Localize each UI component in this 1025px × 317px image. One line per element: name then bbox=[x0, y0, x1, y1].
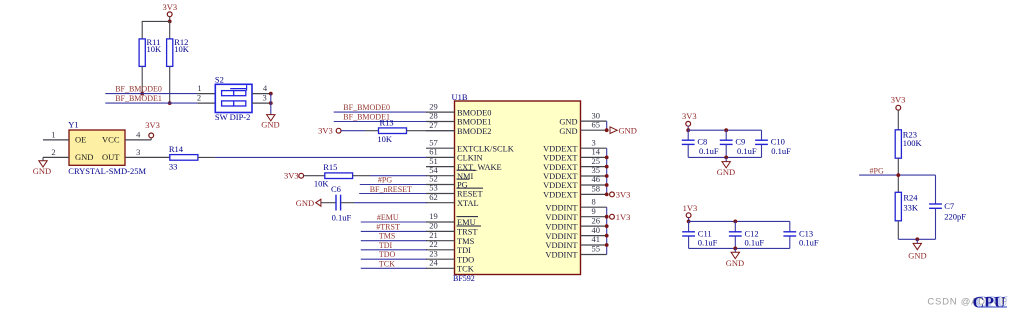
pin 21 TMS bbox=[426, 240, 455, 242]
pin S2-4 bbox=[252, 93, 271, 95]
pin 53 RESET bbox=[426, 193, 455, 195]
ground (S2) bbox=[261, 115, 279, 130]
power 3V3 (VDDEXT) bbox=[610, 190, 631, 200]
pin Y1-2 bbox=[43, 156, 69, 158]
svg-text:3V3: 3V3 bbox=[682, 111, 697, 121]
svg-text:TDI: TDI bbox=[379, 241, 393, 250]
node VDDEXT 35 bbox=[605, 174, 609, 178]
wire to R12 top bbox=[169, 21, 171, 39]
wire CLKIN net bbox=[215, 156, 427, 158]
pin 40 VDDINT bbox=[581, 235, 607, 237]
svg-text:VDDINT: VDDINT bbox=[545, 203, 577, 212]
wire 3V3 to R15 bbox=[304, 175, 325, 177]
pin 22 TDI bbox=[426, 249, 455, 251]
svg-text:TDO: TDO bbox=[457, 255, 474, 264]
svg-text:3: 3 bbox=[136, 147, 140, 157]
wire #PG net bbox=[859, 174, 935, 176]
watermark CSDN bbox=[927, 293, 1008, 311]
pin S2-3 bbox=[252, 102, 271, 104]
resistor R11 bbox=[139, 37, 162, 66]
svg-text:C10: C10 bbox=[771, 137, 785, 147]
node C9 bottom bbox=[724, 156, 728, 160]
capacitor C13 bbox=[783, 221, 818, 248]
pin 28 BMODE1 bbox=[426, 121, 455, 123]
svg-text:10K: 10K bbox=[314, 178, 330, 188]
svg-text:0.1uF: 0.1uF bbox=[799, 238, 819, 248]
node 3V3 junction bbox=[168, 20, 172, 24]
svg-text:GND: GND bbox=[559, 118, 577, 127]
svg-text:GND: GND bbox=[75, 152, 93, 162]
svg-text:0.1uF: 0.1uF bbox=[771, 146, 791, 156]
svg-text:1: 1 bbox=[51, 129, 55, 139]
svg-text:VDDEXT: VDDEXT bbox=[543, 154, 577, 163]
resistor R12 bbox=[167, 37, 190, 66]
wire TDO bbox=[361, 258, 427, 260]
power 3V3 (top) bbox=[162, 2, 177, 17]
svg-text:C9: C9 bbox=[735, 137, 745, 147]
wire R14 lead bbox=[198, 156, 215, 158]
node VDDINT 40 bbox=[605, 234, 609, 238]
wire S2 to ground bbox=[270, 94, 272, 115]
svg-text:3V3: 3V3 bbox=[318, 125, 333, 135]
power 3V3 (R23) bbox=[891, 95, 906, 111]
svg-text:XTAL: XTAL bbox=[457, 199, 479, 208]
pin 51 EXT_WAKE bbox=[426, 166, 455, 168]
pin 8 VDDINT bbox=[581, 206, 607, 208]
wire 1V3 stub bbox=[688, 218, 690, 222]
wire #TRST bbox=[361, 230, 427, 232]
svg-text:TCK: TCK bbox=[457, 265, 474, 274]
svg-text:GND: GND bbox=[619, 125, 637, 135]
wire TDI bbox=[361, 249, 427, 251]
svg-text:0.1uF: 0.1uF bbox=[699, 146, 719, 156]
pin Y1-3 bbox=[125, 156, 170, 158]
node VDDINT 9 bbox=[605, 215, 609, 219]
node S2-3 junction bbox=[269, 101, 273, 105]
node C12 top bbox=[733, 220, 737, 224]
svg-text:C6: C6 bbox=[331, 184, 341, 194]
svg-text:RESET: RESET bbox=[457, 190, 483, 199]
svg-text:GND: GND bbox=[717, 167, 735, 177]
ground (C6) bbox=[296, 198, 321, 208]
svg-text:BF_nRESET: BF_nRESET bbox=[370, 185, 412, 194]
pin 29 BMODE0 bbox=[426, 111, 455, 113]
ground (C8 group) bbox=[717, 157, 735, 177]
power 3V3 (R13) bbox=[318, 125, 341, 135]
power 3V3 (C8 group) bbox=[682, 111, 697, 126]
node VDDINT 26 bbox=[605, 224, 609, 228]
svg-text:VDDEXT: VDDEXT bbox=[543, 144, 577, 153]
node R11 on BF_BMODE0 bbox=[140, 92, 144, 96]
wire #EMU bbox=[361, 221, 427, 223]
svg-text:VDDEXT: VDDEXT bbox=[543, 172, 577, 181]
svg-text:8: 8 bbox=[592, 196, 596, 206]
capacitor C12 bbox=[729, 221, 764, 248]
wire GND to C6 bbox=[321, 202, 336, 204]
power 3V3 (Y1) bbox=[145, 120, 160, 140]
node #PG junction bbox=[896, 173, 900, 177]
capacitor C6 bbox=[331, 184, 351, 223]
resistor R14 bbox=[169, 144, 198, 172]
node VDDEXT 14 bbox=[605, 156, 609, 160]
switch S2 bbox=[215, 74, 252, 122]
node R12 on BF_BMODE1 bbox=[168, 101, 172, 105]
wire R13 to BMODE2 pin bbox=[407, 130, 455, 132]
svg-text:GND: GND bbox=[296, 198, 314, 208]
svg-text:33: 33 bbox=[169, 161, 178, 171]
svg-text:OE: OE bbox=[75, 135, 86, 145]
svg-text:GND: GND bbox=[261, 119, 279, 129]
wire R24 bottom bbox=[897, 221, 899, 240]
crystal Y1 bbox=[68, 120, 146, 176]
svg-text:41: 41 bbox=[592, 234, 601, 244]
svg-text:R15: R15 bbox=[323, 162, 337, 172]
svg-text:#TRST: #TRST bbox=[376, 222, 400, 231]
wire C8 group top rail bbox=[688, 129, 761, 131]
svg-text:3V3: 3V3 bbox=[145, 120, 160, 130]
svg-text:220pF: 220pF bbox=[944, 212, 966, 222]
svg-text:GND: GND bbox=[559, 127, 577, 136]
node C9 top bbox=[724, 128, 728, 132]
pin 27 BMODE2 bbox=[426, 130, 455, 132]
pin 58 VDDEXT bbox=[581, 193, 607, 195]
svg-text:C8: C8 bbox=[697, 137, 707, 147]
svg-text:CPU: CPU bbox=[973, 295, 1006, 312]
svg-text:100K: 100K bbox=[903, 138, 923, 148]
svg-text:R13: R13 bbox=[380, 118, 394, 128]
svg-text:3V3: 3V3 bbox=[284, 170, 299, 180]
svg-text:GND: GND bbox=[908, 251, 926, 261]
ground (R24/C7) bbox=[908, 239, 926, 260]
svg-text:0.1uF: 0.1uF bbox=[332, 212, 352, 222]
wire GND bus bbox=[606, 121, 608, 130]
capacitor C10 bbox=[755, 130, 791, 157]
ground (C11 group) bbox=[726, 248, 744, 268]
svg-text:VDDINT: VDDINT bbox=[545, 222, 577, 231]
svg-text:C7: C7 bbox=[944, 201, 954, 211]
svg-text:10K: 10K bbox=[174, 44, 190, 54]
svg-text:BF_BMODE0: BF_BMODE0 bbox=[343, 103, 390, 112]
wire R11 bottom bbox=[141, 66, 143, 93]
pin 41 VDDINT bbox=[581, 244, 607, 246]
wire R15 to NMI bbox=[353, 175, 370, 177]
pin 26 VDDINT bbox=[581, 225, 607, 227]
pin 24 TCK bbox=[426, 267, 455, 269]
node C12 bottom bbox=[733, 247, 737, 251]
svg-text:10K: 10K bbox=[377, 134, 393, 144]
svg-text:2: 2 bbox=[51, 147, 55, 157]
node VDDEXT 46 bbox=[605, 183, 609, 187]
svg-text:EXTCLK/SCLK: EXTCLK/SCLK bbox=[457, 144, 514, 153]
svg-text:TMS: TMS bbox=[457, 237, 475, 246]
wire Y1-2 to ground bbox=[42, 157, 44, 160]
pin S2-1 bbox=[197, 93, 215, 95]
power 3V3 (R15) bbox=[284, 170, 304, 180]
wire C8 group bottom rail bbox=[688, 156, 761, 158]
resistor R13 bbox=[377, 118, 406, 144]
svg-text:58: 58 bbox=[592, 184, 601, 194]
wire R24/C7 bottom rail bbox=[898, 238, 935, 240]
svg-text:33K: 33K bbox=[903, 203, 919, 213]
pin 20 TRST bbox=[426, 230, 455, 232]
svg-text:OUT: OUT bbox=[102, 152, 120, 162]
pin 14 VDDEXT bbox=[581, 156, 607, 158]
node S2-4 junction bbox=[269, 92, 273, 96]
ground (U1B) bbox=[610, 125, 637, 135]
pin S2-2 bbox=[197, 102, 215, 104]
node GND junction (R24/C7) bbox=[915, 237, 919, 241]
svg-text:TRST: TRST bbox=[457, 228, 477, 237]
pin 57 EXTCLK/SCLK bbox=[426, 147, 455, 149]
svg-text:0.1uF: 0.1uF bbox=[698, 238, 718, 248]
svg-text:VDDEXT: VDDEXT bbox=[543, 163, 577, 172]
svg-text:BMODE0: BMODE0 bbox=[457, 108, 491, 117]
wire C11 group top rail bbox=[689, 220, 790, 222]
wire TMS bbox=[361, 240, 427, 242]
pin 46 VDDEXT bbox=[581, 184, 607, 186]
svg-text:SW DIP-2: SW DIP-2 bbox=[215, 112, 251, 122]
node VDDEXT 25 bbox=[605, 165, 609, 169]
svg-text:VDDINT: VDDINT bbox=[545, 251, 577, 260]
pin 25 VDDEXT bbox=[581, 166, 607, 168]
resistor R23 bbox=[895, 129, 922, 158]
capacitor C9 bbox=[720, 130, 757, 157]
wire 3V3 to R23 bbox=[897, 110, 899, 130]
svg-text:GND: GND bbox=[33, 166, 51, 176]
svg-text:26: 26 bbox=[592, 215, 601, 225]
svg-text:GND: GND bbox=[726, 258, 744, 268]
svg-text:VDDINT: VDDINT bbox=[545, 232, 577, 241]
svg-text:1V3: 1V3 bbox=[683, 203, 698, 213]
wire VDDINT bus bbox=[606, 207, 608, 254]
svg-text:0.1uF: 0.1uF bbox=[745, 238, 765, 248]
svg-text:4: 4 bbox=[136, 129, 141, 139]
svg-text:VDDEXT: VDDEXT bbox=[543, 191, 577, 200]
svg-text:65: 65 bbox=[592, 119, 601, 129]
svg-text:CRYSTAL-SMD-25M: CRYSTAL-SMD-25M bbox=[68, 166, 146, 176]
wire BMODE0 bbox=[334, 111, 427, 113]
wire C11 group bottom rail bbox=[689, 247, 790, 249]
power 1V3 (C11 group) bbox=[683, 203, 698, 218]
svg-text:1V3: 1V3 bbox=[616, 212, 631, 222]
wire BF_BMODE1 bbox=[105, 102, 197, 104]
pin 62 XTAL bbox=[426, 202, 455, 204]
resistor R15 bbox=[314, 162, 353, 188]
svg-text:BF_BMODE0: BF_BMODE0 bbox=[115, 84, 162, 93]
wire R23 to junction bbox=[897, 158, 899, 192]
svg-text:S2: S2 bbox=[215, 74, 224, 84]
svg-text:CLKIN: CLKIN bbox=[457, 154, 483, 163]
pin 23 TDO bbox=[426, 258, 455, 260]
svg-text:#PG: #PG bbox=[378, 176, 392, 185]
svg-text:62: 62 bbox=[429, 192, 438, 202]
svg-text:BF_BMODE1: BF_BMODE1 bbox=[115, 94, 162, 103]
pin 61 CLKIN bbox=[426, 156, 455, 158]
svg-text:BF592: BF592 bbox=[453, 274, 475, 283]
capacitor C7 bbox=[929, 175, 966, 239]
node C8 top bbox=[686, 128, 690, 132]
wire 3V3 stub bbox=[687, 126, 689, 130]
pin 30 GND bbox=[581, 120, 607, 122]
pin 3 VDDEXT bbox=[581, 147, 607, 149]
svg-text:2: 2 bbox=[197, 93, 201, 103]
svg-text:24: 24 bbox=[429, 258, 438, 268]
svg-text:R24: R24 bbox=[903, 192, 918, 202]
svg-text:BMODE1: BMODE1 bbox=[457, 118, 491, 127]
pin 65 GND bbox=[581, 129, 607, 131]
wire to R11 top bbox=[142, 21, 170, 39]
svg-text:VDDEXT: VDDEXT bbox=[543, 181, 577, 190]
op-amp U1B body bbox=[452, 92, 581, 283]
node C11 top bbox=[687, 220, 691, 224]
capacitor C11 bbox=[682, 221, 717, 248]
pin 9 VDDINT bbox=[581, 216, 607, 218]
pin 54 NMI bbox=[426, 175, 455, 177]
svg-text:R14: R14 bbox=[169, 144, 184, 154]
ground (Y1) bbox=[33, 161, 51, 176]
svg-text:55: 55 bbox=[592, 244, 601, 254]
pin 52 PG bbox=[426, 184, 455, 186]
wire 3V3 stub bbox=[169, 17, 171, 22]
power 1V3 (VDDINT) bbox=[610, 212, 631, 222]
svg-text:3V3: 3V3 bbox=[616, 190, 631, 200]
svg-text:TDO: TDO bbox=[379, 250, 396, 259]
pin Y1-1 bbox=[43, 139, 69, 141]
wire BF_nRESET bbox=[359, 193, 427, 195]
pin 35 VDDEXT bbox=[581, 175, 607, 177]
svg-text:Y1: Y1 bbox=[68, 120, 78, 130]
wire R12 bottom bbox=[169, 66, 171, 103]
resistor R24 bbox=[895, 192, 919, 221]
svg-text:#EMU: #EMU bbox=[377, 213, 399, 222]
svg-text:TMS: TMS bbox=[379, 232, 395, 241]
node GND junction bbox=[605, 128, 609, 132]
svg-text:TCK: TCK bbox=[379, 259, 395, 268]
wire #PG bbox=[360, 184, 427, 186]
wire BMODE1 bbox=[334, 121, 427, 123]
svg-text:VDDINT: VDDINT bbox=[545, 241, 577, 250]
wire C6 to XTAL bbox=[341, 202, 354, 204]
svg-text:VDDINT: VDDINT bbox=[545, 213, 577, 222]
node VDDINT 41 bbox=[605, 243, 609, 247]
svg-text:3V3: 3V3 bbox=[162, 2, 177, 12]
svg-text:0.1uF: 0.1uF bbox=[737, 146, 757, 156]
svg-text:3V3: 3V3 bbox=[891, 95, 906, 105]
svg-text:VCC: VCC bbox=[102, 135, 120, 145]
svg-text:10K: 10K bbox=[147, 44, 163, 54]
wire 3V3 to R13 bbox=[341, 130, 365, 132]
wire VDDEXT bus bbox=[606, 148, 608, 194]
wire BF_BMODE0 bbox=[105, 93, 197, 95]
wire TCK bbox=[361, 267, 427, 269]
svg-text:BMODE2: BMODE2 bbox=[457, 127, 491, 136]
pin Y1-4 bbox=[125, 139, 151, 141]
svg-text:3: 3 bbox=[262, 93, 266, 103]
pin 19 EMU bbox=[426, 221, 455, 223]
capacitor C8 bbox=[682, 130, 719, 157]
svg-text:TDI: TDI bbox=[457, 246, 471, 255]
svg-text:27: 27 bbox=[429, 120, 438, 130]
svg-text:#PG: #PG bbox=[870, 166, 884, 175]
svg-text:1: 1 bbox=[197, 83, 201, 93]
node VDDEXT 58 bbox=[605, 193, 609, 197]
pin 55 VDDINT bbox=[581, 254, 607, 256]
